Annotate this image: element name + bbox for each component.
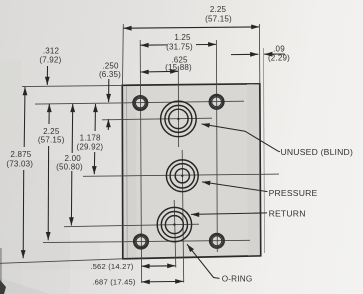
svg-text:(50.80): (50.80) — [56, 162, 83, 171]
svg-text:1.178: 1.178 — [80, 134, 101, 143]
label o-ring — [222, 275, 253, 284]
svg-text:.312: .312 — [43, 47, 60, 56]
dimension .250 arrows — [106, 79, 111, 130]
dimension .09 edge step — [231, 52, 285, 57]
leader pressure — [202, 181, 268, 192]
centerline unused port horizontal — [102, 118, 212, 120]
extension line plate top-right corner — [258, 24, 260, 84]
extension line top edge — [22, 85, 122, 86]
plate inner shading streaks — [124, 86, 137, 257]
dimension line .687 — [142, 279, 184, 284]
dim text 1.178 — [77, 134, 104, 152]
port pressure — [166, 160, 198, 192]
svg-text:1.25: 1.25 — [174, 33, 191, 42]
dim text 2.875 — [6, 150, 33, 168]
extension line plate top-left corner — [122, 24, 125, 85]
svg-text:UNUSED (BLIND): UNUSED (BLIND) — [281, 147, 354, 157]
svg-text:(6.35): (6.35) — [99, 70, 121, 79]
dimension line 2.875 overall height — [21, 87, 28, 258]
dimension line 1.25 bolt spacing — [140, 42, 216, 48]
dim text 2.25 top — [205, 5, 232, 24]
bolt hole top-left — [133, 96, 148, 111]
centerline pressure port horizontal — [83, 174, 279, 176]
dimension line 2.25 vertical — [46, 104, 52, 240]
scan dark left border — [0, 248, 2, 294]
centerline right bolt hole column — [215, 40, 218, 252]
svg-text:RETURN: RETURN — [269, 209, 306, 219]
label unused (blind) — [281, 147, 354, 157]
dimension line 2.00 — [69, 104, 75, 226]
svg-text:(57.15): (57.15) — [38, 136, 65, 145]
extension line bottom edge — [0, 259, 123, 264]
svg-text:PRESSURE: PRESSURE — [269, 188, 318, 198]
scan shading bottom-left — [0, 160, 70, 294]
centerline top bolt holes — [35, 101, 244, 104]
centerline pressure port vertical / .687 extension — [182, 150, 184, 283]
svg-text:(73.03): (73.03) — [6, 159, 33, 168]
dimension line .625 — [141, 69, 179, 75]
label return — [269, 209, 306, 219]
svg-text:(7.92): (7.92) — [39, 56, 61, 65]
svg-text:.687 (17.45): .687 (17.45) — [92, 278, 136, 287]
svg-text:(2.29): (2.29) — [268, 54, 290, 63]
label pressure — [269, 188, 318, 198]
svg-text:2.25: 2.25 — [43, 127, 60, 136]
port return — [157, 207, 191, 241]
dim text 1.25 — [166, 33, 193, 51]
dim text .562 — [90, 262, 134, 271]
svg-text:(57.15): (57.15) — [205, 15, 232, 24]
svg-text:2.25: 2.25 — [210, 5, 227, 14]
leader o-ring — [187, 244, 220, 278]
faint right step extension line (.09) — [263, 48, 264, 253]
svg-text:.09: .09 — [273, 45, 285, 54]
bolt hole bottom-right — [209, 233, 224, 248]
svg-text:(29.92): (29.92) — [77, 142, 104, 151]
bolt hole bottom-left — [134, 234, 149, 249]
svg-text:2.875: 2.875 — [10, 150, 31, 159]
centerline return port horizontal — [64, 224, 199, 227]
dimension line 2.25 overall width — [123, 25, 259, 31]
centerline return port vertical / .562 extension — [174, 200, 176, 268]
centerline left bolt hole column — [140, 40, 141, 283]
leader return — [191, 212, 267, 217]
dim text 2.25 left — [38, 127, 65, 145]
svg-text:(15.88): (15.88) — [165, 63, 192, 72]
scan dark corner blob bottom-left — [0, 280, 6, 294]
faint inner edge line left — [126, 86, 129, 258]
centerline bottom bolt holes — [43, 240, 250, 242]
plate body — [122, 84, 260, 259]
dim text .625 — [165, 56, 192, 73]
svg-text:.562 (14.27): .562 (14.27) — [90, 262, 134, 271]
svg-text:O-RING: O-RING — [222, 275, 253, 284]
dimension .312 arrow — [45, 66, 50, 85]
port unused (blind) — [161, 101, 197, 137]
dimension line .562 — [141, 263, 175, 268]
dim text .09 — [268, 45, 290, 63]
dim text .250 — [99, 62, 121, 80]
dim text .312 — [39, 47, 61, 65]
svg-text:(31.75): (31.75) — [166, 42, 193, 51]
bolt hole top-right — [209, 94, 224, 109]
dim text .687 — [92, 278, 136, 287]
centerline unused port vertical — [177, 66, 179, 147]
leader unused (blind) — [202, 123, 281, 152]
dimension line 1.178 — [92, 104, 98, 174]
dim text 2.00 — [56, 154, 83, 171]
